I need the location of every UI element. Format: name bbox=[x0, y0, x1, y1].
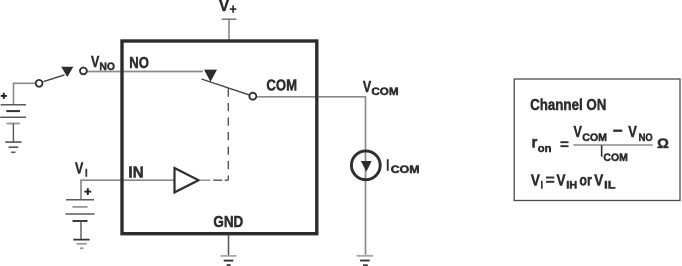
switch S1 terminal circle left bbox=[36, 80, 43, 87]
svg-text:IL: IL bbox=[604, 179, 616, 191]
wire B1 to ground bbox=[12, 124, 14, 143]
equals sign bbox=[560, 142, 568, 146]
wire COM net bbox=[256, 97, 365, 255]
battery B2 plus sign bbox=[84, 188, 91, 195]
wire GND pin bbox=[228, 235, 230, 255]
svg-text:V: V bbox=[557, 173, 566, 190]
svg-text:V: V bbox=[363, 79, 372, 96]
svg-text:COM: COM bbox=[266, 78, 297, 95]
fraction bar bbox=[573, 144, 652, 146]
ground B1 bbox=[5, 142, 21, 152]
buffer driver U1 bbox=[175, 168, 199, 192]
svg-text:NO: NO bbox=[99, 61, 115, 73]
svg-text:I: I bbox=[541, 179, 543, 191]
DUT box bbox=[122, 41, 317, 234]
svg-text:V: V bbox=[91, 54, 100, 71]
current source ICOM arrow bbox=[361, 161, 372, 172]
wire buffer output bbox=[200, 179, 211, 181]
svg-text:COM: COM bbox=[391, 164, 420, 176]
ground GND pin bbox=[221, 255, 237, 257]
svg-text:r: r bbox=[532, 135, 538, 152]
svg-text:V: V bbox=[574, 124, 583, 141]
svg-text:I: I bbox=[85, 168, 88, 180]
analog switch arm wire bbox=[202, 79, 249, 95]
analog switch terminal circle COM bbox=[249, 93, 256, 100]
ground ICOM bbox=[357, 255, 374, 257]
svg-text:V: V bbox=[219, 0, 229, 15]
analog switch arrow bbox=[204, 70, 217, 82]
svg-text:V: V bbox=[594, 173, 603, 190]
switch S1 arrow bbox=[61, 67, 73, 77]
wire B2 to ground bbox=[80, 221, 82, 240]
wire NO net (VNO to NO pin) bbox=[87, 71, 203, 73]
battery B1 plus sign bbox=[1, 93, 7, 99]
svg-text:IH: IH bbox=[566, 179, 577, 191]
svg-text:NO: NO bbox=[129, 55, 149, 72]
svg-text:COM: COM bbox=[371, 86, 398, 98]
svg-text:Ω: Ω bbox=[657, 135, 669, 151]
wire V+ down to box bbox=[228, 19, 230, 41]
svg-text:on: on bbox=[538, 143, 552, 155]
wire IN net bbox=[81, 180, 174, 199]
ground B2 bbox=[73, 239, 89, 241]
dashed control line corner dash bbox=[225, 179, 229, 181]
battery B1 plates bbox=[1, 104, 27, 106]
svg-text:Channel ON: Channel ON bbox=[530, 97, 606, 114]
wire left source to switch bbox=[14, 83, 36, 104]
svg-text:or: or bbox=[579, 173, 591, 190]
svg-text:COM: COM bbox=[603, 152, 627, 164]
dashed control line horizontal dash bbox=[213, 179, 222, 181]
svg-text:I: I bbox=[386, 157, 389, 174]
svg-text:V: V bbox=[628, 124, 637, 141]
svg-text:NO: NO bbox=[639, 132, 653, 144]
svg-text:V: V bbox=[531, 173, 540, 190]
svg-text:IN: IN bbox=[128, 165, 143, 182]
svg-text:V: V bbox=[75, 161, 84, 178]
battery B2 plates bbox=[66, 199, 94, 201]
switch S1 pole wire bbox=[44, 75, 65, 82]
dashed control line vertical bbox=[227, 89, 229, 181]
switch S1 terminal circle right bbox=[80, 68, 87, 75]
svg-text:COM: COM bbox=[582, 132, 607, 144]
annotation box bbox=[514, 79, 680, 201]
power rail bar V+ bbox=[222, 18, 237, 20]
svg-text:GND: GND bbox=[213, 214, 243, 231]
current source ICOM circle bbox=[351, 151, 380, 180]
